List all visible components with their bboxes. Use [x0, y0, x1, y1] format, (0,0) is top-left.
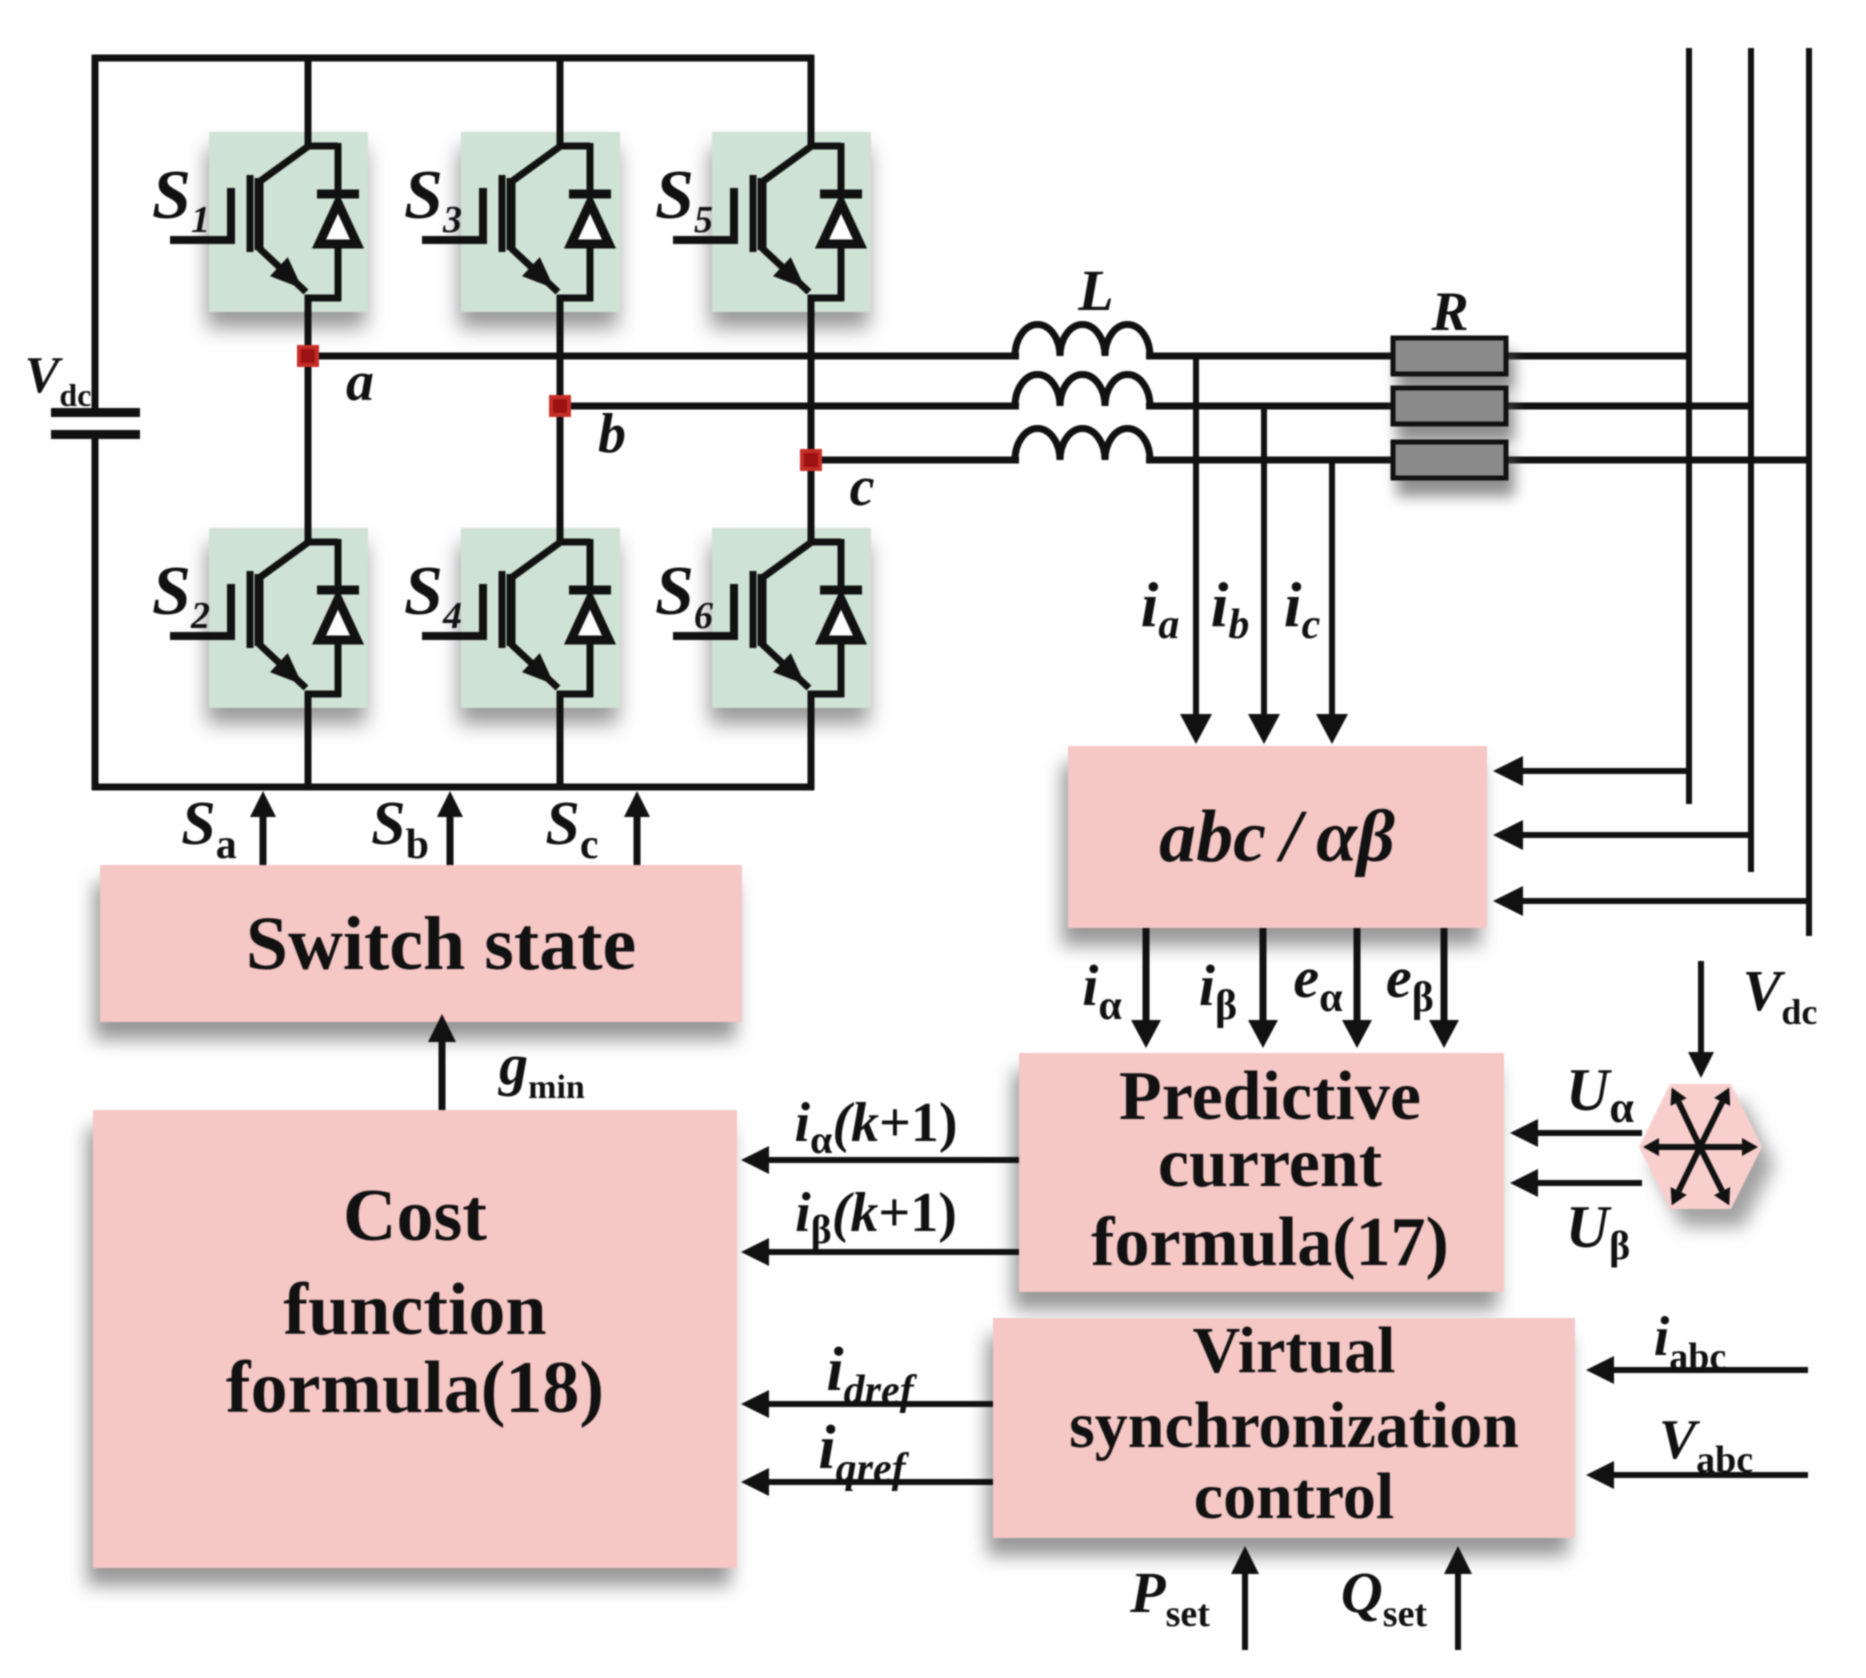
arrow Sa gating signal — [260, 817, 267, 865]
wire phase leg c lower — [808, 691, 815, 790]
arrow sense bus1 into abc block — [1523, 768, 1689, 774]
svg-text:Predictive: Predictive — [1119, 1058, 1421, 1135]
transistor S5 (IGBT with freewheeling diode) — [673, 143, 862, 301]
arrow Vabc into virtual sync block — [1614, 1472, 1808, 1478]
wire top DC bus — [92, 55, 814, 62]
arrow i&#945; from abc block to predictive block — [1143, 928, 1150, 1020]
wire phase leg b upper — [557, 55, 564, 146]
svg-text:synchronization: synchronization — [1069, 1389, 1519, 1462]
arrow sense bus3 into abc block — [1523, 898, 1809, 904]
inductor L phase c — [1015, 429, 1150, 460]
IGBT cell background S5 (green pad) — [712, 132, 871, 312]
svg-text:current: current — [1158, 1125, 1382, 1202]
wire phase leg b lower — [557, 691, 564, 790]
resistor R phase a — [1393, 338, 1506, 374]
transistor S4 (IGBT with freewheeling diode) — [422, 539, 611, 697]
space-vector arrows inside hexagon — [1643, 1088, 1758, 1206]
IGBT cell background S2 (green pad) — [209, 528, 368, 708]
space-vector hexagon — [1639, 1084, 1762, 1209]
capacitor Vdc plate bottom — [51, 430, 140, 439]
arrow Vdc into space-vector hexagon — [1698, 961, 1704, 1052]
svg-text:function: function — [283, 1269, 546, 1351]
wire phase leg a middle — [305, 295, 312, 542]
IGBT cell background S4 (green pad) — [461, 528, 620, 708]
wire phase b output — [560, 403, 1019, 410]
svg-text:formula(18): formula(18) — [226, 1347, 604, 1429]
wire/arrow current ia tap — [1193, 356, 1199, 714]
wire phase a output — [308, 353, 1019, 360]
arrow Sc gating signal — [634, 817, 641, 865]
wire voltage sense bus 3 (phase c) — [1806, 48, 1812, 936]
IGBT cell background S6 (green pad) — [712, 528, 871, 708]
arrow sense bus2 into abc block — [1523, 832, 1751, 838]
arrow Qset into virtual sync block — [1455, 1574, 1461, 1650]
svg-text:Cost: Cost — [343, 1175, 487, 1257]
resistor R phase c — [1393, 442, 1506, 478]
wire phase leg b middle — [557, 295, 564, 542]
arrow gmin from cost block to switch state — [439, 1042, 446, 1110]
wire voltage sense bus 1 (phase a) — [1686, 48, 1692, 804]
arrow U beta into predictive block — [1538, 1180, 1642, 1186]
wire phase leg c upper — [808, 55, 815, 146]
block switch state — [100, 865, 742, 1022]
wire phase a to resistor and bus — [1146, 353, 1689, 360]
inductor L phase b — [1015, 375, 1150, 407]
transistor S1 (IGBT with freewheeling diode) — [170, 143, 359, 301]
node b junction dot — [551, 397, 569, 415]
transistor S2 (IGBT with freewheeling diode) — [170, 539, 359, 697]
svg-text:L: L — [1077, 258, 1113, 323]
wire/arrow current ic tap — [1329, 460, 1335, 714]
wire phase b to resistor and bus — [1146, 403, 1751, 410]
wire phase c output — [811, 457, 1019, 464]
wire/arrow current ib tap — [1261, 406, 1267, 714]
svg-text:R: R — [1430, 281, 1468, 343]
arrow iabc into virtual sync block — [1614, 1367, 1808, 1373]
block predictive current formula(17) — [1019, 1053, 1504, 1292]
resistor R phase b — [1393, 388, 1506, 424]
svg-text:Virtual: Virtual — [1193, 1314, 1396, 1387]
arrow iqref to cost block — [769, 1479, 993, 1485]
capacitor Vdc plate top — [51, 408, 140, 417]
arrow Sb gating signal — [447, 817, 454, 865]
block cost function formula(18) — [93, 1110, 737, 1568]
block virtual synchronization control — [993, 1318, 1575, 1538]
wire left DC rail lower — [92, 439, 99, 790]
wire left DC rail upper — [92, 55, 99, 411]
arrow i alpha(k+1) to cost block — [769, 1157, 1019, 1163]
svg-text:c: c — [850, 456, 875, 518]
node a junction dot — [299, 347, 317, 365]
arrow i beta(k+1) to cost block — [769, 1249, 1019, 1255]
arrow e&#945; from abc block to predictive block — [1354, 928, 1361, 1020]
IGBT cell background S1 (green pad) — [209, 132, 368, 312]
block abc/alphabeta transform — [1068, 746, 1487, 928]
node c junction dot — [802, 451, 820, 469]
wire voltage sense bus 2 (phase b) — [1748, 48, 1754, 872]
arrow idref to cost block — [769, 1401, 993, 1407]
wire phase c to resistor and bus — [1146, 457, 1809, 464]
arrow Pset into virtual sync block — [1242, 1574, 1248, 1650]
svg-text:a: a — [346, 351, 374, 413]
IGBT cell background S3 (green pad) — [461, 132, 620, 312]
svg-text:b: b — [598, 403, 626, 465]
svg-text:formula(17): formula(17) — [1091, 1204, 1449, 1281]
arrow U alpha into predictive block — [1538, 1130, 1642, 1136]
svg-text:abc / αβ: abc / αβ — [1159, 796, 1395, 878]
wire phase leg a lower — [305, 691, 312, 790]
inductor L phase a — [1015, 325, 1150, 356]
arrow e&#946; from abc block to predictive block — [1441, 928, 1448, 1020]
transistor S3 (IGBT with freewheeling diode) — [422, 143, 611, 301]
wire phase leg a upper — [305, 55, 312, 146]
arrow i&#946; from abc block to predictive block — [1260, 928, 1267, 1020]
transistor S6 (IGBT with freewheeling diode) — [673, 539, 862, 697]
svg-text:Switch state: Switch state — [246, 902, 637, 986]
wire bottom DC bus — [92, 784, 814, 791]
svg-text:control: control — [1194, 1460, 1394, 1533]
wire phase leg c middle — [808, 295, 815, 542]
